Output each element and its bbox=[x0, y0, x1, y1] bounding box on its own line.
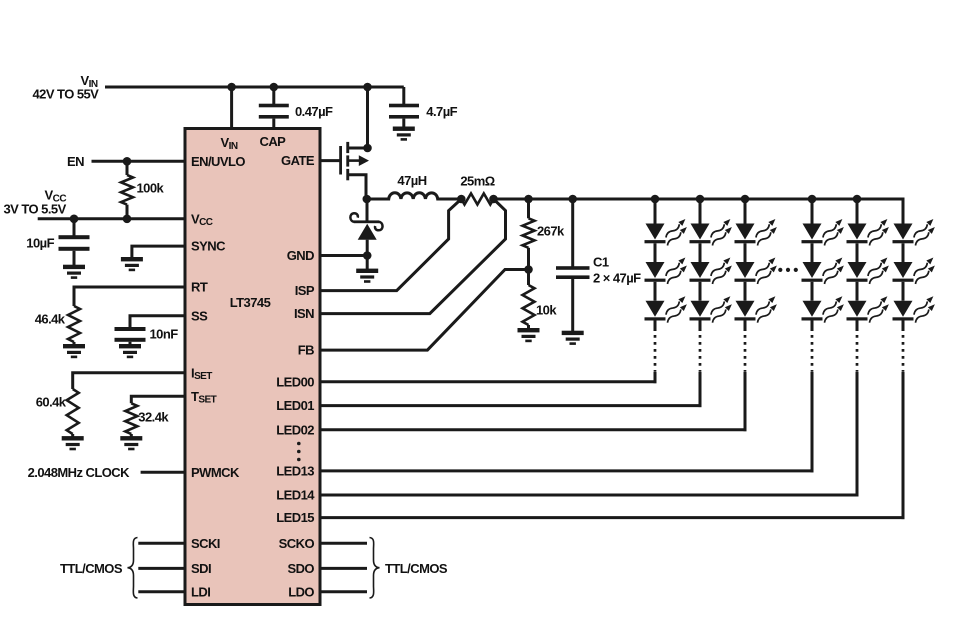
capacitor C1 2x47uF bbox=[571, 199, 574, 267]
resistor R 100k bbox=[126, 161, 129, 175]
capacitor 0.47uF (CAP pin) bbox=[272, 87, 275, 104]
wire ISP kelvin sense bbox=[320, 199, 461, 291]
wire GND pin bbox=[320, 254, 367, 257]
junction rail/string5 bbox=[853, 195, 862, 204]
svg-text:SYNC: SYNC bbox=[191, 239, 226, 254]
wire string top bbox=[744, 198, 747, 224]
LED D6c bbox=[893, 294, 937, 324]
inductor L1 47uH bbox=[367, 193, 462, 199]
svg-text:3V TO 5.5V: 3V TO 5.5V bbox=[4, 202, 67, 217]
wire ISN kelvin sense bbox=[320, 199, 506, 314]
wire below last LED bbox=[902, 321, 905, 332]
LED string 6 (LED15) bbox=[893, 198, 937, 519]
capacitor 10nF bbox=[115, 327, 146, 331]
svg-text:RT: RT bbox=[191, 280, 208, 295]
svg-text:TTL/CMOS: TTL/CMOS bbox=[385, 561, 448, 576]
wire below last LED bbox=[856, 321, 859, 332]
LED string 3 (LED02) bbox=[735, 195, 779, 432]
LED D3c bbox=[735, 294, 779, 324]
wire riser to pin line bbox=[902, 372, 905, 519]
junction rail/267k bbox=[524, 195, 533, 204]
svg-text:EN: EN bbox=[67, 154, 84, 169]
wire SDO bbox=[320, 567, 367, 570]
wire SCKI bbox=[138, 542, 185, 545]
LED string 5 (LED14) bbox=[847, 195, 891, 497]
wire SCKO bbox=[320, 542, 367, 545]
wire riser to pin line bbox=[654, 372, 657, 383]
svg-text:GATE: GATE bbox=[281, 153, 315, 168]
wire string top bbox=[654, 198, 657, 224]
wire string top bbox=[902, 198, 905, 224]
ground 32.4k bbox=[120, 436, 142, 450]
ellipsis between LED02 and LED13 bbox=[297, 442, 301, 446]
LED D3b bbox=[735, 256, 779, 286]
svg-text:CAP: CAP bbox=[260, 134, 287, 149]
svg-text:ISN: ISN bbox=[294, 306, 314, 321]
svg-text:10nF: 10nF bbox=[150, 327, 179, 342]
junction rail/C1 bbox=[568, 195, 577, 204]
wire LDI bbox=[138, 590, 185, 593]
wire SYNC to ground bbox=[132, 246, 185, 257]
svg-text:42V TO 55V: 42V TO 55V bbox=[33, 87, 100, 102]
svg-text:EN/UVLO: EN/UVLO bbox=[191, 154, 245, 169]
svg-text:10k: 10k bbox=[536, 303, 557, 318]
transistor Q1 NMOS bbox=[339, 146, 342, 175]
junction GND/diode bbox=[363, 251, 372, 260]
junction sense right bbox=[489, 195, 498, 204]
wire LED15 bbox=[320, 516, 905, 519]
LED D5c bbox=[847, 294, 891, 324]
svg-text:LED14: LED14 bbox=[276, 488, 315, 503]
svg-text:LED02: LED02 bbox=[276, 422, 314, 437]
svg-text:C1: C1 bbox=[593, 255, 609, 270]
brace TTL/CMOS right bbox=[370, 538, 380, 599]
wire LED00 bbox=[320, 380, 657, 383]
node SW junction bbox=[363, 195, 372, 204]
wire string top bbox=[811, 198, 814, 224]
svg-text:FB: FB bbox=[298, 343, 314, 358]
ground 60.4k bbox=[62, 436, 84, 450]
wire TSET bbox=[131, 396, 185, 403]
capacitor 10uF bbox=[73, 219, 76, 236]
svg-text:LDO: LDO bbox=[288, 584, 314, 599]
svg-text:PWMCK: PWMCK bbox=[191, 465, 240, 480]
ground 10nF bbox=[119, 344, 141, 358]
svg-text:GND: GND bbox=[287, 248, 314, 263]
wire VCC rail bbox=[38, 217, 185, 220]
resistor R 267k bbox=[527, 199, 530, 218]
svg-text:SCKI: SCKI bbox=[191, 536, 220, 551]
LED string 4 (LED13) bbox=[802, 195, 846, 473]
junction rail/string2 bbox=[696, 195, 705, 204]
svg-text:ISP: ISP bbox=[295, 283, 315, 298]
svg-text:SDO: SDO bbox=[287, 561, 314, 576]
LED D2c bbox=[690, 294, 734, 324]
wire GATE bbox=[320, 159, 341, 162]
svg-text:LED13: LED13 bbox=[276, 464, 314, 479]
svg-text:0.47µF: 0.47µF bbox=[295, 104, 333, 119]
wire string top bbox=[699, 198, 702, 224]
wire below last LED bbox=[811, 321, 814, 332]
ground 46.4k bbox=[63, 344, 85, 358]
svg-text:25mΩ: 25mΩ bbox=[460, 174, 494, 189]
diode D1 Schottky catch bbox=[366, 199, 369, 221]
LED D4a bbox=[802, 217, 846, 247]
svg-text:TTL/CMOS: TTL/CMOS bbox=[60, 561, 123, 576]
junction rail/string4 bbox=[808, 195, 817, 204]
LED D1a bbox=[645, 217, 689, 247]
svg-text:267k: 267k bbox=[537, 224, 565, 239]
junction rail/string1 bbox=[651, 195, 660, 204]
LED D2b bbox=[690, 256, 734, 286]
LED D1c bbox=[645, 294, 689, 324]
junction drain stub bbox=[363, 144, 372, 153]
node VIN: input rail 42V-55V bbox=[105, 86, 404, 89]
wire EN bbox=[92, 160, 186, 163]
resistor R 32.4k bbox=[125, 403, 137, 434]
wire below last LED bbox=[699, 321, 702, 332]
wire FB bbox=[320, 270, 529, 351]
LED D1b bbox=[645, 256, 689, 286]
LED D5b bbox=[847, 256, 891, 286]
svg-text:SCKO: SCKO bbox=[279, 536, 315, 551]
svg-text:2.048MHz CLOCK: 2.048MHz CLOCK bbox=[28, 465, 131, 480]
svg-text:LED15: LED15 bbox=[276, 510, 314, 525]
wire riser to pin line bbox=[856, 372, 859, 497]
junction VCC/100k bbox=[123, 215, 132, 224]
svg-text:LED00: LED00 bbox=[276, 374, 314, 389]
resistor R 10k bbox=[527, 270, 530, 286]
ground C1 bbox=[562, 331, 584, 345]
LED string 1 (LED00) bbox=[645, 195, 689, 384]
wire ISET bbox=[73, 373, 185, 389]
ground diode/GND bbox=[356, 269, 378, 283]
wire drain to VIN rail bbox=[366, 87, 369, 150]
wire LED14 bbox=[320, 494, 859, 497]
svg-text:32.4k: 32.4k bbox=[138, 410, 169, 425]
op-amp U1 LT3745 IC body bbox=[185, 129, 320, 605]
wire VIN pin drop bbox=[230, 87, 233, 130]
resistor R 60.4k bbox=[67, 389, 79, 434]
svg-text:LT3745: LT3745 bbox=[230, 295, 271, 310]
LED D6a bbox=[893, 217, 937, 247]
capacitor 4.7uF input bypass bbox=[402, 87, 405, 104]
svg-text:SDI: SDI bbox=[191, 561, 211, 576]
svg-text:2 × 47µF: 2 × 47µF bbox=[593, 271, 641, 286]
resistor R 46.4k bbox=[68, 306, 80, 342]
ellipsis more strings bbox=[778, 268, 782, 272]
ground 4.7uF bbox=[393, 127, 415, 141]
junction FB divider bbox=[524, 265, 533, 274]
wire dotted continuation bbox=[744, 335, 747, 372]
wire LED01 bbox=[320, 404, 702, 407]
wire VOUT rail bbox=[494, 198, 905, 201]
wire riser to pin line bbox=[811, 372, 814, 472]
LED D3a bbox=[735, 217, 779, 247]
LED D4c bbox=[802, 294, 846, 324]
wire PWMCK bbox=[141, 471, 185, 474]
junction VCC/10uF bbox=[70, 215, 79, 224]
svg-text:LED01: LED01 bbox=[276, 398, 314, 413]
junction sense left bbox=[457, 195, 466, 204]
wire riser to pin line bbox=[699, 372, 702, 407]
resistor R sense 25mOhm bbox=[461, 194, 493, 205]
junction 0.47uF/rail bbox=[270, 83, 279, 92]
wire dotted continuation bbox=[902, 335, 905, 372]
LED string 2 (LED01) bbox=[690, 195, 734, 407]
svg-text:4.7µF: 4.7µF bbox=[426, 104, 457, 119]
ground SYNC bbox=[121, 257, 143, 271]
svg-text:46.4k: 46.4k bbox=[35, 312, 66, 327]
wire RT bbox=[74, 287, 185, 306]
junction rail/string3 bbox=[741, 195, 750, 204]
wire below last LED bbox=[654, 321, 657, 332]
LED D6b bbox=[893, 256, 937, 286]
wire LDO bbox=[320, 590, 367, 593]
LED D5a bbox=[847, 217, 891, 247]
LED D2a bbox=[690, 217, 734, 247]
junction VIN/pin bbox=[227, 83, 236, 92]
svg-text:LDI: LDI bbox=[191, 584, 210, 599]
svg-text:60.4k: 60.4k bbox=[36, 395, 67, 410]
LED D4b bbox=[802, 256, 846, 286]
wire dotted continuation bbox=[699, 335, 702, 372]
ground 10uF bbox=[63, 265, 85, 279]
svg-text:10µF: 10µF bbox=[26, 236, 54, 251]
wire dotted continuation bbox=[856, 335, 859, 372]
junction VIN/drain bbox=[363, 83, 372, 92]
wire riser to pin line bbox=[744, 372, 747, 431]
wire SDI bbox=[138, 567, 185, 570]
wire LED02 bbox=[320, 428, 747, 431]
svg-text:47µH: 47µH bbox=[397, 173, 426, 188]
wire below last LED bbox=[744, 321, 747, 332]
junction EN/100k bbox=[123, 157, 132, 166]
wire dotted continuation bbox=[654, 335, 657, 372]
brace TTL/CMOS left bbox=[128, 538, 138, 599]
svg-text:SS: SS bbox=[191, 308, 208, 323]
ground 10k bbox=[518, 328, 540, 342]
wire LED13 bbox=[320, 469, 814, 472]
wire dotted continuation bbox=[811, 335, 814, 372]
wire string top bbox=[856, 198, 859, 224]
wire SS bbox=[130, 316, 185, 328]
svg-text:100k: 100k bbox=[137, 181, 165, 196]
